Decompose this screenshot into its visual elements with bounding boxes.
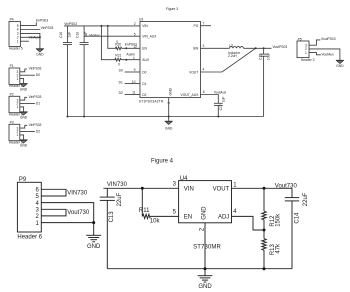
junction R11 <box>141 187 144 190</box>
junction C17 rail <box>217 116 219 118</box>
wire P3 pin3 to VinPS03 <box>20 125 27 128</box>
wire P9 pin3/pin2 to Vout730 <box>41 209 66 216</box>
inductor L3 2.2uH <box>228 44 244 59</box>
wire P1 pin3 to VinPS03 <box>20 69 27 72</box>
svg-text:D1: D1 <box>119 80 123 84</box>
svg-text:150k: 150k <box>276 213 282 227</box>
wire ground rail <box>68 116 264 118</box>
svg-text:6: 6 <box>203 90 205 94</box>
svg-text:D0: D0 <box>36 73 40 77</box>
wire D2 stub <box>125 94 140 96</box>
svg-text:R21: R21 <box>115 54 121 58</box>
junction R13 rail <box>263 267 266 270</box>
resistor R21 (0 ohm) <box>115 58 121 61</box>
svg-text:10k: 10k <box>150 219 161 225</box>
svg-text:VoutPS03: VoutPS03 <box>273 45 288 49</box>
wire D1 stub <box>125 83 140 85</box>
wire AUX branch <box>101 26 116 60</box>
svg-text:L3: L3 <box>229 44 233 48</box>
svg-text:4: 4 <box>203 68 205 72</box>
wire VIN730 rail <box>103 187 178 189</box>
svg-text:VoutPS03: VoutPS03 <box>321 37 336 41</box>
svg-text:AUX: AUX <box>142 58 150 62</box>
svg-text:VIN: VIN <box>142 24 148 28</box>
junction U4 gnd rail <box>204 267 207 270</box>
op-amp U3 body <box>140 22 201 98</box>
ground arrow P4 <box>36 49 44 57</box>
svg-text:VOUT_AUX: VOUT_AUX <box>181 93 200 97</box>
wire P5 pin3 to VoutPS03 <box>309 40 320 45</box>
junction GND rail <box>168 116 170 118</box>
svg-text:C15: C15 <box>259 54 263 60</box>
svg-text:0: 0 <box>118 62 120 66</box>
svg-text:VOUT: VOUT <box>189 70 198 74</box>
resistor R12 150k <box>262 188 282 230</box>
wire VIN rail <box>64 25 140 27</box>
svg-text:VIN730: VIN730 <box>67 190 88 196</box>
wire inductor to VoutPS03 <box>244 47 272 49</box>
wire P3 pin1 to ground <box>20 135 24 140</box>
svg-text:PG: PG <box>194 24 199 28</box>
svg-text:VIN_AUX: VIN_AUX <box>142 35 157 39</box>
wire P2 pin3 to VinPS03 <box>20 97 27 100</box>
svg-text:2: 2 <box>134 22 136 26</box>
svg-text:VinAux: VinAux <box>89 34 100 38</box>
junction <box>39 36 41 38</box>
junction VIN rail to EN branch <box>107 25 109 27</box>
svg-text:GND: GND <box>169 88 173 96</box>
svg-text:VinPS03: VinPS03 <box>41 26 54 30</box>
connector P9 (Header 6) <box>17 182 41 232</box>
svg-text:GND: GND <box>20 144 28 148</box>
capacitor C14 22uF <box>285 188 309 268</box>
svg-text:47k: 47k <box>276 243 282 254</box>
wire VOUT rail <box>232 187 293 189</box>
junction VIN rail to AUX branch <box>100 25 102 27</box>
svg-text:D1: D1 <box>36 102 40 106</box>
svg-text:VIN: VIN <box>184 187 194 193</box>
capacitor C16 <box>59 26 72 117</box>
svg-text:1uF: 1uF <box>67 32 71 38</box>
capacitor C13 22uF <box>100 188 123 268</box>
wire P3 pin2 to D2 <box>20 131 35 133</box>
svg-text:P2: P2 <box>10 93 14 97</box>
svg-text:Vout730: Vout730 <box>275 183 298 189</box>
svg-text:ST1PS03A2TR: ST1PS03A2TR <box>139 99 164 103</box>
svg-text:C16: C16 <box>59 32 63 38</box>
svg-text:GND: GND <box>336 64 344 68</box>
svg-text:EN: EN <box>142 47 147 51</box>
svg-text:P5: P5 <box>298 37 302 41</box>
svg-text:C17: C17 <box>219 104 223 110</box>
svg-text:5: 5 <box>134 32 136 36</box>
svg-text:D1: D1 <box>142 82 146 86</box>
svg-text:ST730MR: ST730MR <box>193 244 221 250</box>
wire P9 pin1 to ground <box>41 222 93 224</box>
wire P4 pin2 <box>20 36 40 38</box>
junction C16 rail <box>67 116 69 118</box>
svg-text:R11: R11 <box>139 208 150 214</box>
resistor R20 (0 ohm) <box>115 47 121 50</box>
svg-text:10uF: 10uF <box>266 53 270 61</box>
svg-text:AuxIn: AuxIn <box>127 52 136 56</box>
junction AuxIn <box>125 59 127 61</box>
junction C15 <box>263 47 265 49</box>
svg-text:GND: GND <box>36 52 44 56</box>
svg-text:SW: SW <box>193 47 199 51</box>
svg-text:Header 6: Header 6 <box>17 235 42 241</box>
connector P2 (Header 3) <box>9 96 20 112</box>
svg-text:R20: R20 <box>115 43 121 47</box>
wire PG stub <box>201 25 212 27</box>
wire U3 GND pin down <box>168 98 170 117</box>
connector P5 (Header 3) <box>297 41 309 58</box>
svg-text:GND: GND <box>202 206 208 220</box>
svg-text:ADJ: ADJ <box>218 215 229 221</box>
svg-text:D0: D0 <box>142 70 146 74</box>
svg-text:EN: EN <box>184 215 192 221</box>
svg-text:GND: GND <box>20 116 28 120</box>
junction ADJ <box>263 229 266 232</box>
svg-text:U3: U3 <box>139 18 143 22</box>
wire P4 pin5 to EnPS03 <box>20 22 36 25</box>
op-amp U4 body <box>179 181 232 223</box>
svg-text:1: 1 <box>17 39 19 43</box>
wire R11 branch <box>141 188 143 216</box>
svg-text:2.2uH: 2.2uH <box>228 54 237 58</box>
svg-text:C18: C18 <box>76 32 80 38</box>
svg-text:EnPS03: EnPS03 <box>125 42 137 46</box>
svg-text:Header 3: Header 3 <box>301 58 315 62</box>
wire R21 to AUX pin <box>121 59 140 61</box>
svg-text:GND: GND <box>198 284 212 290</box>
svg-text:P9: P9 <box>19 177 27 183</box>
wire P2 pin2 to D1 <box>20 103 35 105</box>
svg-text:VOUT: VOUT <box>213 187 230 193</box>
wire P4 pin1 stub <box>20 40 29 42</box>
wire P5 pin2 to ground <box>309 49 340 60</box>
resistor R13 47k <box>262 230 282 269</box>
wire D0 stub <box>125 71 140 73</box>
junction C18 rail <box>83 116 85 118</box>
wire P5 pin1 to VoutAux <box>309 53 321 55</box>
svg-text:D2: D2 <box>119 91 123 95</box>
svg-text:P3: P3 <box>10 121 14 125</box>
svg-text:Figure 3: Figure 3 <box>166 7 178 11</box>
capacitor C17 1uF <box>214 97 226 117</box>
ground arrow P5 <box>336 60 344 68</box>
svg-text:1: 1 <box>16 105 18 109</box>
svg-text:D2: D2 <box>142 93 146 97</box>
wire P9 pin4 to ground <box>41 203 93 236</box>
wire VOUT_AUX <box>201 95 219 104</box>
svg-text:VinPS03: VinPS03 <box>29 123 42 127</box>
wire P9 pin6/pin5 to VIN730 <box>41 189 66 196</box>
resistor R11 10k <box>142 214 150 218</box>
svg-text:7: 7 <box>203 21 205 25</box>
svg-text:P4: P4 <box>10 18 14 22</box>
capacitor C18 <box>76 26 89 117</box>
svg-text:VinPS03: VinPS03 <box>29 67 42 71</box>
svg-text:1: 1 <box>16 77 18 81</box>
svg-text:C14: C14 <box>294 212 300 224</box>
wire P2 pin1 to ground <box>20 107 24 112</box>
wire P1 pin2 to D0 <box>20 74 35 76</box>
svg-text:GND: GND <box>87 244 101 250</box>
svg-text:VIN730: VIN730 <box>107 182 128 188</box>
ground earth fig4 <box>198 269 213 290</box>
svg-text:Vout730: Vout730 <box>67 210 90 216</box>
svg-text:C13: C13 <box>109 211 115 223</box>
wire P1 pin1 to ground <box>20 79 24 84</box>
svg-text:3: 3 <box>203 44 205 48</box>
junction P9 gnd <box>92 221 95 224</box>
wire U4 GND down <box>204 223 206 269</box>
wire EN branch <box>108 26 117 48</box>
wire ADJ <box>232 216 265 230</box>
svg-text:VoutAux: VoutAux <box>322 53 335 57</box>
wire R11 to EN pin <box>151 215 179 217</box>
wire P4 pin4 <box>20 29 40 31</box>
svg-text:EnPS03: EnPS03 <box>36 19 48 23</box>
wire VOUT diagonal <box>201 48 256 72</box>
ground arrow P2 <box>20 112 28 120</box>
svg-text:1: 1 <box>305 51 307 55</box>
svg-text:GND: GND <box>165 126 173 130</box>
svg-text:VinAux: VinAux <box>29 36 40 40</box>
svg-text:D0: D0 <box>119 69 123 73</box>
svg-text:D2: D2 <box>36 130 40 134</box>
capacitor C15 10uF <box>259 48 271 116</box>
connector P1 (Header 3) <box>9 68 20 84</box>
svg-text:Header 5: Header 5 <box>9 46 23 50</box>
wire SW to inductor <box>201 47 230 49</box>
svg-text:U4: U4 <box>180 176 188 182</box>
junction R12 top <box>263 187 266 190</box>
ground arrow fig3 <box>165 117 173 131</box>
ground arrow P1 <box>20 84 28 92</box>
svg-text:VoutAux: VoutAux <box>214 90 227 94</box>
svg-text:22uF: 22uF <box>117 192 123 206</box>
svg-text:1: 1 <box>16 133 18 137</box>
svg-text:1uF: 1uF <box>222 97 226 103</box>
svg-text:P1: P1 <box>10 64 14 68</box>
connector P3 (Header 3) <box>9 124 20 140</box>
wire fig4 ground rail <box>107 268 292 270</box>
wire P4 pin3 down to pin2 net <box>20 33 40 37</box>
wire VinAux to VIN_AUX pin <box>84 35 140 37</box>
svg-text:VinPS03: VinPS03 <box>29 95 42 99</box>
connector P4 (Header 5) <box>9 22 20 47</box>
ground earth P9 <box>86 235 101 250</box>
svg-text:GND: GND <box>20 87 28 91</box>
ground arrow P3 <box>20 140 28 148</box>
wire R20 to EN pin <box>122 47 140 49</box>
svg-text:22uF: 22uF <box>303 192 309 206</box>
svg-text:Figure 4: Figure 4 <box>151 159 174 165</box>
wire to ground <box>39 37 41 48</box>
junction EnPS03 <box>125 47 127 49</box>
junction SW/VOUT <box>255 47 257 49</box>
